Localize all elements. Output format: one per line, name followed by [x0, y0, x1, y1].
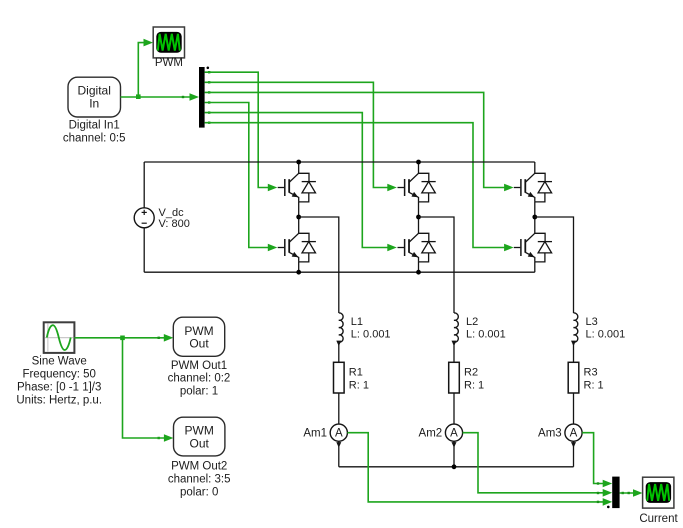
svg-text:polar: 0: polar: 0 [180, 487, 218, 499]
svg-text:L2: L2 [466, 316, 478, 328]
wire Q3 emitter stub [534, 202, 536, 217]
wire top rail [144, 161, 535, 163]
svg-text:L1: L1 [351, 316, 363, 328]
transistor Q2 (leg2 top IGBT) [398, 173, 436, 202]
wire Am3 to bus [573, 441, 575, 467]
wire left bus upper [143, 162, 145, 208]
svg-text:Current: Current [639, 513, 678, 525]
junction on Digital In1 wire [136, 94, 141, 99]
resistor R3 [568, 362, 579, 393]
wire left bus lower [143, 228, 145, 272]
node neutral junction [452, 464, 457, 469]
wire phase B to load [419, 217, 455, 313]
wire R2 to Am2 [453, 393, 455, 424]
wire Digital In1 to demux [121, 96, 192, 98]
wire Am1 to bus [338, 441, 340, 467]
svg-text:Am2: Am2 [419, 428, 443, 440]
block PWM Out1 [173, 317, 224, 356]
wire Q4 emitter stub [298, 262, 300, 272]
resistor R1 [334, 362, 345, 393]
svg-text:PWM Out2: PWM Out2 [171, 461, 227, 473]
wire R3 to Am3 [573, 393, 575, 424]
svg-text:Am1: Am1 [303, 428, 327, 440]
node phase A [296, 215, 301, 220]
svg-text:L: 0.001: L: 0.001 [586, 329, 626, 341]
node bottom rail leg1 [296, 270, 301, 275]
wire Q4 collector stub [298, 217, 300, 234]
wire gate signal 6 [205, 123, 508, 248]
svg-text:PWM: PWM [155, 57, 183, 69]
svg-text:Units: Hertz, p.u.: Units: Hertz, p.u. [16, 395, 102, 407]
transistor Q6 (leg3 bottom IGBT) [514, 233, 552, 262]
vertex dots on scope wire [622, 492, 624, 494]
svg-text:L: 0.001: L: 0.001 [351, 329, 391, 341]
annotation dot [207, 67, 210, 70]
vertex dots on demux outputs [208, 71, 210, 124]
wire gate signal 4 [205, 103, 271, 248]
svg-text:R: 1: R: 1 [464, 380, 484, 392]
ammeter Am3 [565, 424, 582, 448]
transistor Q3 (leg3 top IGBT) [514, 173, 552, 202]
svg-text:channel: 0:5: channel: 0:5 [63, 133, 126, 145]
wire gate signal 3 [205, 92, 508, 187]
svg-text:Out: Out [189, 337, 209, 351]
mux Mux1 [612, 477, 619, 509]
junction on sine wire [120, 336, 125, 341]
inductor L3 [571, 313, 578, 346]
wire junction to scope PWM [138, 43, 145, 97]
svg-text:PWM Out1: PWM Out1 [171, 360, 227, 372]
svg-text:Am3: Am3 [538, 428, 562, 440]
svg-text:PWM: PWM [184, 324, 213, 338]
wire L1 to R1 [338, 344, 340, 363]
transistor Q1 (leg1 top IGBT) [278, 173, 316, 202]
wire Am1 to mux [347, 433, 606, 502]
svg-text:Digital: Digital [78, 84, 111, 98]
wire neutral bus [339, 466, 574, 468]
scope PWM [153, 27, 184, 58]
vertex dot on PWM Out2 wire [158, 437, 160, 439]
svg-text:In: In [89, 97, 99, 111]
svg-text:Digital In1: Digital In1 [69, 120, 120, 132]
wire Q3 collector stub [534, 162, 536, 174]
annotation dot [607, 506, 610, 509]
node phase C [532, 215, 537, 220]
wire Sine Wave to PWM Out1 [74, 337, 167, 339]
wire Am2 to mux [463, 433, 606, 493]
inductor L2 [452, 313, 459, 346]
wire Q5 collector stub [418, 217, 420, 234]
wire Q1 emitter stub [298, 202, 300, 217]
transistor Q5 (leg2 bottom IGBT) [398, 233, 436, 262]
svg-text:R2: R2 [464, 367, 478, 379]
svg-text:channel: 0:2: channel: 0:2 [168, 373, 231, 385]
svg-text:Sine Wave: Sine Wave [32, 355, 87, 367]
wire Q6 emitter stub [534, 262, 536, 272]
svg-text:L: 0.001: L: 0.001 [466, 329, 506, 341]
svg-text:PWM: PWM [185, 424, 214, 438]
vertex dots at mux inputs [597, 482, 599, 503]
node top rail leg1 [296, 160, 301, 165]
wire mux to scope Current [620, 492, 637, 494]
wire R1 to Am1 [338, 393, 340, 424]
wire Q2 emitter stub [418, 202, 420, 217]
svg-text:Frequency: 50: Frequency: 50 [22, 368, 96, 380]
svg-text:Phase: [0 -1 1]/3: Phase: [0 -1 1]/3 [17, 381, 101, 393]
block Digital In1 [68, 77, 121, 117]
svg-text:channel: 3:5: channel: 3:5 [168, 473, 231, 485]
wire Am2 to bus [453, 441, 455, 467]
wire phase A to load [299, 217, 339, 313]
wire phase C to load [535, 217, 574, 313]
wire L2 to R2 [453, 344, 455, 363]
wire bottom rail [144, 271, 535, 273]
wire L3 to R3 [573, 344, 575, 363]
wire gate signal 1 [205, 72, 271, 187]
svg-text:Out: Out [190, 437, 210, 451]
svg-text:R: 1: R: 1 [584, 380, 604, 392]
block PWM Out2 [174, 417, 225, 456]
vertex dot on Digital In1 wire [182, 96, 184, 98]
source Sine Wave [44, 322, 75, 353]
node bottom rail leg2 [416, 270, 421, 275]
svg-text:R3: R3 [584, 367, 598, 379]
svg-text:polar: 1: polar: 1 [180, 386, 218, 398]
wire Q2 collector stub [418, 162, 420, 174]
scope Current [643, 477, 674, 508]
wire Q6 collector stub [534, 217, 536, 234]
wire Q1 collector stub [298, 162, 300, 174]
resistor R2 [449, 362, 460, 393]
node top rail leg2 [416, 160, 421, 165]
inductor L1 [336, 313, 343, 346]
ammeter Am1 [330, 424, 347, 448]
node phase B [416, 215, 421, 220]
source V_dc [134, 208, 154, 228]
wire gate signal 2 [205, 82, 391, 187]
svg-text:R: 1: R: 1 [349, 380, 369, 392]
wire Am3 to mux [582, 433, 606, 484]
wire junction to PWM Out2 [123, 338, 168, 438]
ammeter Am2 [445, 424, 462, 448]
vertex dot on sine wire [158, 337, 160, 339]
wire Q5 emitter stub [418, 262, 420, 272]
svg-text:V: 800: V: 800 [159, 218, 190, 230]
transistor Q4 (leg1 bottom IGBT) [278, 233, 316, 262]
demux Demux1 [199, 67, 205, 128]
svg-text:L3: L3 [586, 316, 598, 328]
svg-text:R1: R1 [349, 367, 363, 379]
wire gate signal 5 [205, 113, 391, 248]
